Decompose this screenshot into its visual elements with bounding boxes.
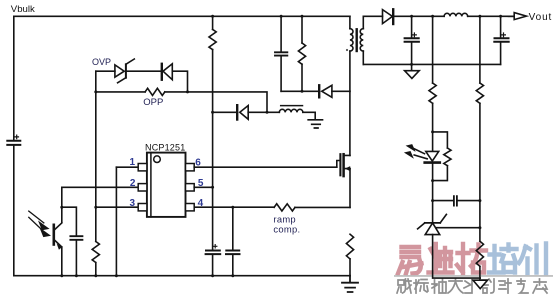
wire CS row <box>194 206 274 208</box>
resistor clamp R3 <box>298 16 305 91</box>
capacitor output C7 <box>494 16 508 64</box>
wire left rail lower <box>13 146 15 276</box>
pin 5 box <box>186 184 195 191</box>
ground secondary triangle <box>405 71 420 79</box>
wire LED to TL431 <box>432 164 434 223</box>
zener OVP D1 <box>115 59 134 83</box>
wire VCC vertical main <box>212 50 214 250</box>
node LED top junction <box>431 130 434 133</box>
wire divider mid <box>479 103 481 241</box>
wire zener to diode <box>127 70 161 72</box>
node OPP junctions <box>94 90 189 93</box>
transformer secondary winding <box>360 16 363 64</box>
wire aux row from VCC <box>213 111 236 113</box>
capacitor output C4 <box>405 16 419 70</box>
svg-text:5: 5 <box>198 178 204 189</box>
wire top Vbulk rail <box>14 15 350 17</box>
wire secondary ground row <box>363 63 500 65</box>
node output rail dots <box>410 15 502 18</box>
resistor LED parallel R8 <box>433 132 451 181</box>
watermark line1 glyph 1 (red) <box>398 247 422 274</box>
resistor OPP R2 <box>145 88 165 95</box>
wire clamp bottom row <box>281 90 318 92</box>
resistor FB lower R6 <box>92 207 99 276</box>
capacitor clamp C3 <box>275 16 287 91</box>
ground main <box>342 276 358 292</box>
transistor opto U2 photo <box>29 211 62 250</box>
ground right triangle <box>473 280 488 288</box>
resistor divider lower R10 <box>476 241 483 266</box>
diode output D5 <box>383 9 394 24</box>
wire opto emitter to rail <box>61 247 63 276</box>
watermark line1 glyph 2 (red) <box>429 244 453 273</box>
transistor TL431 U3 <box>418 214 480 234</box>
wire divider right vertical <box>479 16 481 83</box>
wire pin3 row <box>96 206 138 208</box>
wire OVP right down <box>172 71 187 92</box>
inductor aux winding L2 <box>279 106 303 113</box>
node VCC dots <box>211 15 214 277</box>
node sec gnd dot <box>410 63 413 66</box>
wire opto collector vertical <box>61 187 63 222</box>
node CS cap rail dot <box>231 274 234 277</box>
svg-text:4: 4 <box>198 198 204 209</box>
node OVP corner <box>96 70 115 72</box>
resistor sense R5 <box>346 234 353 259</box>
wire divider left vertical upper <box>432 16 434 83</box>
capacitor FB filter C2 <box>62 207 83 276</box>
wire to right ground <box>479 266 481 280</box>
wire secondary top row <box>363 15 382 17</box>
svg-text:NCP1251: NCP1251 <box>145 143 185 153</box>
watermark divider rule <box>394 275 553 277</box>
capacitor compensation C8 <box>433 196 480 205</box>
wire pin5 VCC row <box>194 186 212 188</box>
node rail dots <box>60 274 118 277</box>
wire OVP left vertical <box>95 71 97 207</box>
ground aux <box>308 120 322 128</box>
pin 6 box <box>186 164 195 171</box>
svg-text:OVP: OVP <box>92 57 111 67</box>
node Vout arrow <box>509 13 527 20</box>
node clamp dots <box>280 15 304 93</box>
wire drain to source vertical <box>349 169 351 208</box>
diode OVP series D2 <box>162 64 173 80</box>
node FB cap junction <box>60 206 63 209</box>
svg-text:3: 3 <box>129 198 135 209</box>
wire ramp to source <box>295 206 350 208</box>
capacitor bulk C1 <box>7 135 20 145</box>
transformer core <box>356 29 358 51</box>
wire TL431 anode down <box>433 235 481 279</box>
svg-text:comp.: comp. <box>273 224 300 235</box>
pin 4 box <box>186 204 195 211</box>
svg-text:Vbulk: Vbulk <box>11 4 35 15</box>
wire bottom ground rail <box>14 275 350 277</box>
svg-text:Vout: Vout <box>529 12 553 23</box>
resistor LED feed R7 <box>429 83 436 103</box>
MOSFET Q1 <box>337 154 350 176</box>
wire pin1 GND vertical <box>115 167 117 276</box>
node comp cap junction left <box>431 199 434 202</box>
node divider junction dots <box>478 199 481 229</box>
label pin numbers <box>129 157 203 209</box>
node phase dot primary <box>346 49 348 51</box>
wire output rail after L <box>468 15 515 17</box>
node LED bottom junction <box>431 179 434 182</box>
svg-text:1: 1 <box>129 157 135 168</box>
wire OPP row right <box>165 92 267 112</box>
wire pin2 FB row <box>62 186 138 188</box>
wire aux diode to coil <box>248 111 279 113</box>
transformer T1 primary winding <box>350 16 353 155</box>
pin 2 box <box>138 184 147 191</box>
watermark line1 glyph 3 (red) <box>457 244 486 273</box>
wire VCC vertical top <box>212 16 214 29</box>
capacitor VCC C5 <box>206 245 221 255</box>
node pin3 junction <box>94 206 97 209</box>
wire sense to rail <box>349 259 351 276</box>
op-amp U1 NCP1251 body <box>147 153 186 217</box>
wire to LED <box>432 103 434 151</box>
wire OPP row left <box>96 91 145 93</box>
pin 3 box <box>138 204 147 211</box>
wire clamp diode to drain <box>332 90 350 92</box>
wire pin6 DRV row to gate <box>194 166 337 168</box>
diode clamp D4 <box>319 85 332 97</box>
capacitor CS filter C6 <box>226 207 240 276</box>
wire output top rail <box>394 15 444 17</box>
watermark line1 glyph 5 (blue) <box>519 244 546 274</box>
node CS cap junction <box>231 206 234 209</box>
svg-text:OPP: OPP <box>143 97 163 108</box>
node aux junction <box>266 111 269 114</box>
wire left rail upper <box>13 16 15 140</box>
wire aux coil to gnd <box>303 112 315 119</box>
resistor divider upper R9 <box>476 83 483 103</box>
resistor startup R1 <box>209 29 216 49</box>
inductor output L1 <box>444 13 468 16</box>
watermark line1 glyph 4 (blue) <box>489 245 517 273</box>
wire pin1 row <box>116 166 138 168</box>
wire VCC cap to rail <box>212 255 214 276</box>
diode opto LED D6 <box>404 144 440 163</box>
resistor ramp comp R4 <box>274 204 295 211</box>
pin 1 box <box>138 164 147 171</box>
diode aux VCC D3 <box>237 105 248 119</box>
svg-text:2: 2 <box>130 178 136 189</box>
svg-text:6: 6 <box>195 157 201 168</box>
watermark line2 glyphs (gray) <box>397 279 547 293</box>
